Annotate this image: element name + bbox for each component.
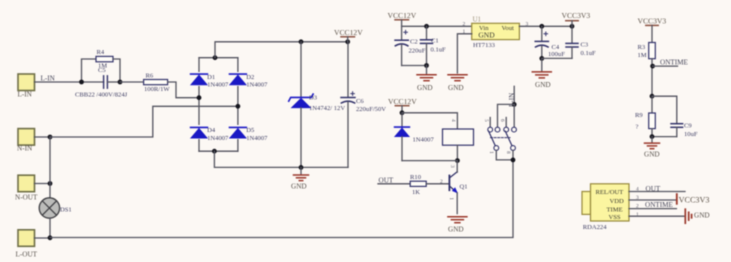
capacitor C2	[395, 26, 426, 65]
svg-text:VCC12V: VCC12V	[388, 97, 417, 106]
pin 3 wire U1 out rail	[519, 25, 572, 27]
svg-text:L-IN: L-IN	[41, 75, 56, 83]
wire C2 bottom to C1 bottom	[402, 65, 427, 67]
op-amp U1 regulator HT7133	[472, 15, 520, 49]
relay arm right	[505, 131, 512, 146]
junction D3 top	[299, 39, 304, 44]
wire contact NO branch left	[498, 104, 515, 127]
junction C4 top	[539, 24, 544, 29]
relay contact circle 4	[512, 127, 517, 132]
wire L-OUT pad to junction	[35, 237, 51, 239]
wire R3 bottom	[651, 59, 653, 96]
svg-text:3: 3	[526, 21, 529, 27]
junction coil bottom	[455, 158, 460, 163]
relay contact circle 2	[495, 127, 500, 132]
ground symbol main	[291, 167, 309, 190]
svg-text:3: 3	[636, 195, 639, 201]
diode D2	[230, 72, 269, 89]
svg-text:Vout: Vout	[502, 25, 515, 32]
svg-text:VDD: VDD	[610, 198, 625, 205]
svg-text:1K: 1K	[412, 189, 420, 196]
svg-text:CBB22 /400V/824J: CBB22 /400V/824J	[75, 91, 128, 98]
junction VCC12V relay node	[400, 110, 405, 115]
wire C4 bottom to C3 bottom	[542, 57, 572, 59]
capacitor C9	[671, 123, 698, 138]
wire R9 top	[651, 96, 653, 113]
wire C9 top branch	[652, 96, 677, 123]
wire bridge top tap to VCC rail	[215, 42, 348, 58]
svg-text:GND: GND	[644, 150, 660, 158]
svg-text:RDA224: RDA224	[583, 224, 608, 231]
svg-text:220uF/50V: 220uF/50V	[356, 106, 386, 113]
svg-text:D2: D2	[246, 74, 254, 81]
bridge left rail wire	[198, 58, 200, 152]
junction bridge top tap	[213, 55, 218, 60]
junction VCC rail at C6	[345, 39, 350, 44]
svg-text:100R/1W: 100R/1W	[144, 86, 170, 93]
junction node N-OUT	[48, 181, 53, 186]
diode D1	[191, 72, 229, 89]
svg-text:R3: R3	[638, 44, 646, 51]
svg-text:HT7133: HT7133	[473, 42, 496, 49]
svg-text:1N4007: 1N4007	[413, 136, 435, 143]
svg-text:100uF: 100uF	[548, 51, 565, 58]
svg-text:VCC12V: VCC12V	[388, 11, 417, 20]
svg-text:OUT: OUT	[379, 176, 394, 184]
junction bridge left mid	[197, 95, 202, 100]
diode D4	[191, 125, 229, 142]
capacitor C5	[75, 67, 128, 99]
capacitor C1	[421, 26, 447, 65]
svg-text:N-IN: N-IN	[17, 145, 33, 153]
relay common circle right	[511, 146, 516, 151]
svg-text:REL/OUT: REL/OUT	[596, 189, 624, 196]
junction node N-IN	[48, 135, 53, 140]
svg-text:GND: GND	[417, 84, 433, 92]
svg-text:D4: D4	[207, 127, 216, 134]
svg-text:2: 2	[463, 21, 466, 27]
svg-text:2: 2	[440, 179, 443, 185]
svg-text:U1: U1	[473, 15, 482, 23]
svg-text:DS1: DS1	[60, 206, 72, 213]
resistor R3	[638, 43, 656, 60]
relay link dashed	[491, 137, 511, 139]
transistor Q1	[448, 161, 468, 214]
svg-text:8: 8	[505, 151, 511, 154]
relay arm left	[489, 131, 496, 146]
svg-text:L-IN: L-IN	[18, 91, 33, 99]
svg-text:C2: C2	[410, 39, 418, 46]
pin 4 wire REL/OUT	[629, 191, 685, 193]
wire ONTIME stub	[653, 65, 678, 67]
resistor R9	[635, 112, 655, 131]
power port VCC3V3 regulator	[562, 11, 591, 27]
svg-text:D3: D3	[309, 95, 318, 102]
svg-text:C3: C3	[581, 41, 589, 48]
ground symbol under U1 pin1	[448, 75, 467, 92]
junction node right of R4	[118, 80, 123, 85]
IC U2 RDA224	[582, 184, 629, 231]
resistor R4	[82, 49, 121, 82]
diode flyback 1N4007	[395, 113, 435, 161]
power port VCC12V regulator	[388, 11, 417, 26]
pad N-OUT	[15, 175, 38, 201]
svg-text:GND: GND	[448, 226, 464, 234]
svg-text:GND: GND	[535, 81, 551, 89]
power port VCC12V main	[334, 28, 363, 42]
diode D5	[230, 125, 269, 142]
wire relay top	[402, 113, 457, 129]
relay contact stub NC right	[505, 118, 507, 128]
capacitor C6	[341, 42, 386, 168]
pin 2 wire TIME	[629, 208, 676, 210]
wire R9 bottom junction	[652, 129, 677, 137]
svg-text:C1: C1	[431, 38, 439, 45]
svg-text:1: 1	[463, 29, 466, 35]
junction bridge bottom tap	[212, 149, 217, 154]
relay contact circle 3	[504, 127, 509, 132]
svg-text:4: 4	[450, 119, 456, 122]
svg-text:?: ?	[636, 124, 639, 131]
relay contact stub NC left	[489, 118, 491, 128]
capacitor C3	[566, 26, 596, 58]
svg-text:220uF: 220uF	[409, 48, 426, 55]
svg-text:R10: R10	[410, 174, 422, 181]
svg-text:OUT: OUT	[646, 185, 661, 193]
svg-text:1: 1	[488, 151, 494, 154]
wire contact NO branch right	[513, 104, 515, 127]
svg-text:Q1: Q1	[460, 184, 468, 191]
junction relay contact top	[512, 102, 517, 107]
svg-text:N-OUT: N-OUT	[15, 193, 38, 201]
pin 1 wire U1 GND	[457, 34, 471, 73]
resistor R6	[144, 73, 171, 93]
junction C1 top	[424, 24, 429, 29]
svg-text:3: 3	[449, 165, 455, 168]
svg-text:6: 6	[499, 119, 505, 122]
svg-text:C4: C4	[552, 44, 560, 51]
wire N-IN to bridge right node	[50, 106, 238, 137]
relay common circle left	[494, 146, 499, 151]
svg-text:GND: GND	[694, 212, 710, 220]
svg-text:1N4007: 1N4007	[207, 82, 229, 89]
resistor R10	[410, 174, 426, 196]
junction bridge right mid	[236, 104, 241, 109]
junction contact output	[511, 158, 516, 163]
svg-text:D5: D5	[246, 127, 255, 134]
wire L-IN pad to R4 node	[35, 81, 82, 83]
wire bottom long run to relay contact	[50, 160, 513, 238]
junction C3 top	[570, 24, 575, 29]
ground symbol under C4	[532, 58, 551, 89]
bridge bottom wire	[199, 150, 238, 152]
svg-text:R4: R4	[97, 49, 105, 56]
svg-text:1N4007: 1N4007	[207, 135, 229, 142]
junction ONTIME	[650, 64, 655, 69]
wire N-IN pad to junction	[35, 136, 51, 138]
svg-text:VCC3V3: VCC3V3	[638, 17, 667, 26]
svg-text:0.1uF: 0.1uF	[431, 46, 447, 53]
wire VCC12V rail to U1	[402, 25, 472, 27]
junction C4 bottom	[539, 56, 544, 61]
relay coil K1	[443, 119, 474, 145]
junction C9 top	[650, 94, 655, 99]
svg-text:C5: C5	[98, 67, 106, 74]
wire lamp bottom	[49, 218, 51, 238]
svg-text:10uF: 10uF	[684, 131, 698, 138]
wire C5 to R6	[120, 81, 144, 83]
pin 1 wire VSS	[629, 215, 684, 217]
ground symbol under C1	[417, 66, 436, 92]
wire common left down	[496, 150, 513, 160]
svg-text:1M: 1M	[638, 52, 647, 59]
net label L-IN rotated at relay contact	[508, 86, 516, 107]
svg-text:R9: R9	[635, 112, 643, 119]
svg-text:1N4742/ 12V: 1N4742/ 12V	[309, 105, 345, 112]
wire common right down	[512, 150, 514, 160]
svg-text:0.1uF: 0.1uF	[581, 50, 597, 57]
svg-text:2: 2	[636, 203, 639, 209]
svg-text:4: 4	[636, 186, 639, 192]
junction ground rail at D3	[299, 165, 304, 170]
ground symbol under Q1	[448, 217, 467, 234]
svg-text:TIME: TIME	[607, 206, 623, 213]
bridge top wire	[199, 57, 238, 59]
svg-text:1: 1	[636, 212, 639, 218]
junction node L-OUT	[48, 235, 53, 240]
svg-text:C9: C9	[684, 123, 692, 130]
svg-text:ONTIME: ONTIME	[660, 59, 689, 67]
wire coil bottom	[456, 145, 458, 160]
wire bridge bottom tap to ground rail	[214, 151, 348, 167]
relay contact circle 1	[488, 127, 493, 132]
svg-text:VCC3V3: VCC3V3	[679, 196, 710, 205]
svg-text:GND: GND	[291, 183, 307, 191]
junction C1 bottom	[424, 63, 429, 68]
pad N-IN	[17, 129, 35, 153]
pin 3 wire VDD	[629, 199, 676, 201]
capacitor C4	[535, 26, 565, 58]
svg-text:1N4007: 1N4007	[246, 82, 268, 89]
svg-text:5: 5	[483, 119, 489, 122]
svg-text:L-OUT: L-OUT	[16, 250, 38, 258]
svg-text:D1: D1	[207, 74, 215, 81]
svg-text:C6: C6	[356, 98, 364, 105]
power port VCC3V3 timer	[638, 17, 667, 43]
ground symbol at VSS	[685, 209, 709, 223]
pad L-OUT	[16, 230, 38, 258]
svg-text:VCC12V: VCC12V	[334, 28, 363, 37]
wire N vertical to lamp	[49, 137, 51, 198]
power port VCC12V relay	[388, 97, 417, 113]
svg-text:ONTIME: ONTIME	[645, 201, 674, 209]
junction node left of R4	[79, 80, 84, 85]
svg-text:1: 1	[448, 197, 454, 200]
svg-text:GND: GND	[478, 31, 495, 40]
svg-text:GND: GND	[448, 84, 464, 92]
ground symbol under R9	[644, 137, 660, 159]
wire R6 to bridge left node	[168, 82, 199, 98]
svg-text:1N4007: 1N4007	[246, 135, 268, 142]
pad L-IN	[18, 74, 35, 99]
svg-text:R6: R6	[146, 73, 154, 80]
wire OUT to R10	[378, 183, 410, 185]
lamp DS1	[39, 198, 72, 218]
wire R10 to base	[426, 183, 449, 185]
power port VCC3V3 at VDD	[677, 194, 710, 205]
junction R9 bottom	[650, 134, 655, 139]
svg-text:VSS: VSS	[609, 214, 621, 221]
bridge right rail wire	[237, 58, 239, 152]
wire N-OUT pad to junction	[35, 183, 51, 185]
wire flyback bottom to junction	[402, 160, 457, 162]
zener diode D3	[289, 42, 346, 168]
svg-text:VCC3V3: VCC3V3	[562, 11, 591, 20]
